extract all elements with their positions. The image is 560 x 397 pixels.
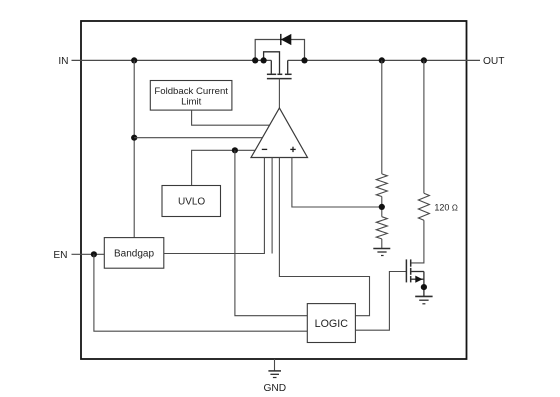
junction dot feedback divider top [379, 57, 385, 63]
wire IN sense drop to bandgap [133, 60, 135, 237]
transistor Q1 PMOS pass element [264, 52, 292, 79]
junction dot UVLO line tap [232, 147, 238, 153]
wire op-amp plus lead to feedback node [292, 158, 382, 208]
svg-text:UVLO: UVLO [178, 197, 205, 208]
outer IC boundary box [81, 21, 467, 359]
box Foldback Current Limit [150, 81, 232, 111]
wire R2 to ground [381, 239, 383, 248]
junction dot EN line [91, 251, 97, 257]
junction dot diode cathode leg [301, 57, 307, 63]
wire tap down to LOGIC left input [235, 150, 307, 315]
ground feedback divider [373, 249, 390, 256]
wire UVLO to op-amp input [192, 150, 256, 185]
box Bandgap [104, 238, 164, 269]
resistor R2 feedback lower [376, 217, 387, 239]
svg-text:120 Ω: 120 Ω [434, 202, 458, 212]
diode D1 bridge wire over pass FET [255, 40, 304, 61]
svg-text:OUT: OUT [483, 56, 505, 67]
resistor R1 feedback upper [376, 174, 387, 197]
wire bandgap reference to op-amp minus [164, 158, 265, 254]
box UVLO [162, 186, 221, 217]
ground GND pin [268, 371, 281, 378]
wire Q1 gate to op-amp output [278, 79, 280, 109]
wire IN rail left [72, 59, 272, 61]
wire OUT rail right [288, 59, 480, 61]
op-amp U1 error amplifier [251, 108, 308, 158]
diode D1 [281, 34, 292, 45]
wire GND pin stub [274, 359, 276, 371]
svg-text:Foldback Current: Foldback Current [154, 86, 228, 97]
svg-text:EN: EN [53, 250, 67, 261]
wire feedback node [381, 197, 383, 217]
junction dot discharge branch top [421, 57, 427, 63]
svg-text:LOGIC: LOGIC [315, 318, 349, 330]
svg-text:GND: GND [263, 383, 286, 394]
wire R3 to Q2 drain [411, 220, 424, 263]
junction dot IN sense tap [131, 135, 137, 141]
junction dot IN rail [131, 57, 137, 63]
wire EN branch down to LOGIC [94, 254, 307, 331]
junction dot Q1 bulk leg [261, 57, 267, 63]
resistor R3 120 ohm [418, 193, 429, 220]
wire EN input [72, 253, 105, 255]
transistor Q2 NMOS discharge [406, 259, 424, 296]
wire op-amp second base lead [271, 158, 273, 254]
ground Q2 source [415, 296, 432, 303]
wire discharge branch top lead [423, 60, 425, 193]
wire LOGIC output to Q2 gate [355, 272, 406, 331]
junction dot feedback node [379, 204, 385, 210]
box LOGIC [307, 304, 355, 343]
arrow Q2 source [415, 276, 422, 283]
junction dot Q2 source-bulk [421, 284, 427, 290]
svg-text:IN: IN [58, 56, 68, 67]
svg-text:Bandgap: Bandgap [114, 249, 154, 260]
wire IN sense to op-amp [134, 137, 262, 139]
svg-text:Limit: Limit [181, 97, 202, 108]
junction dot diode anode leg [252, 57, 258, 63]
wire op-amp center lead to LOGIC right [279, 158, 369, 316]
wire foldback output to op-amp [192, 110, 270, 125]
wire feedback divider top lead [381, 60, 383, 173]
